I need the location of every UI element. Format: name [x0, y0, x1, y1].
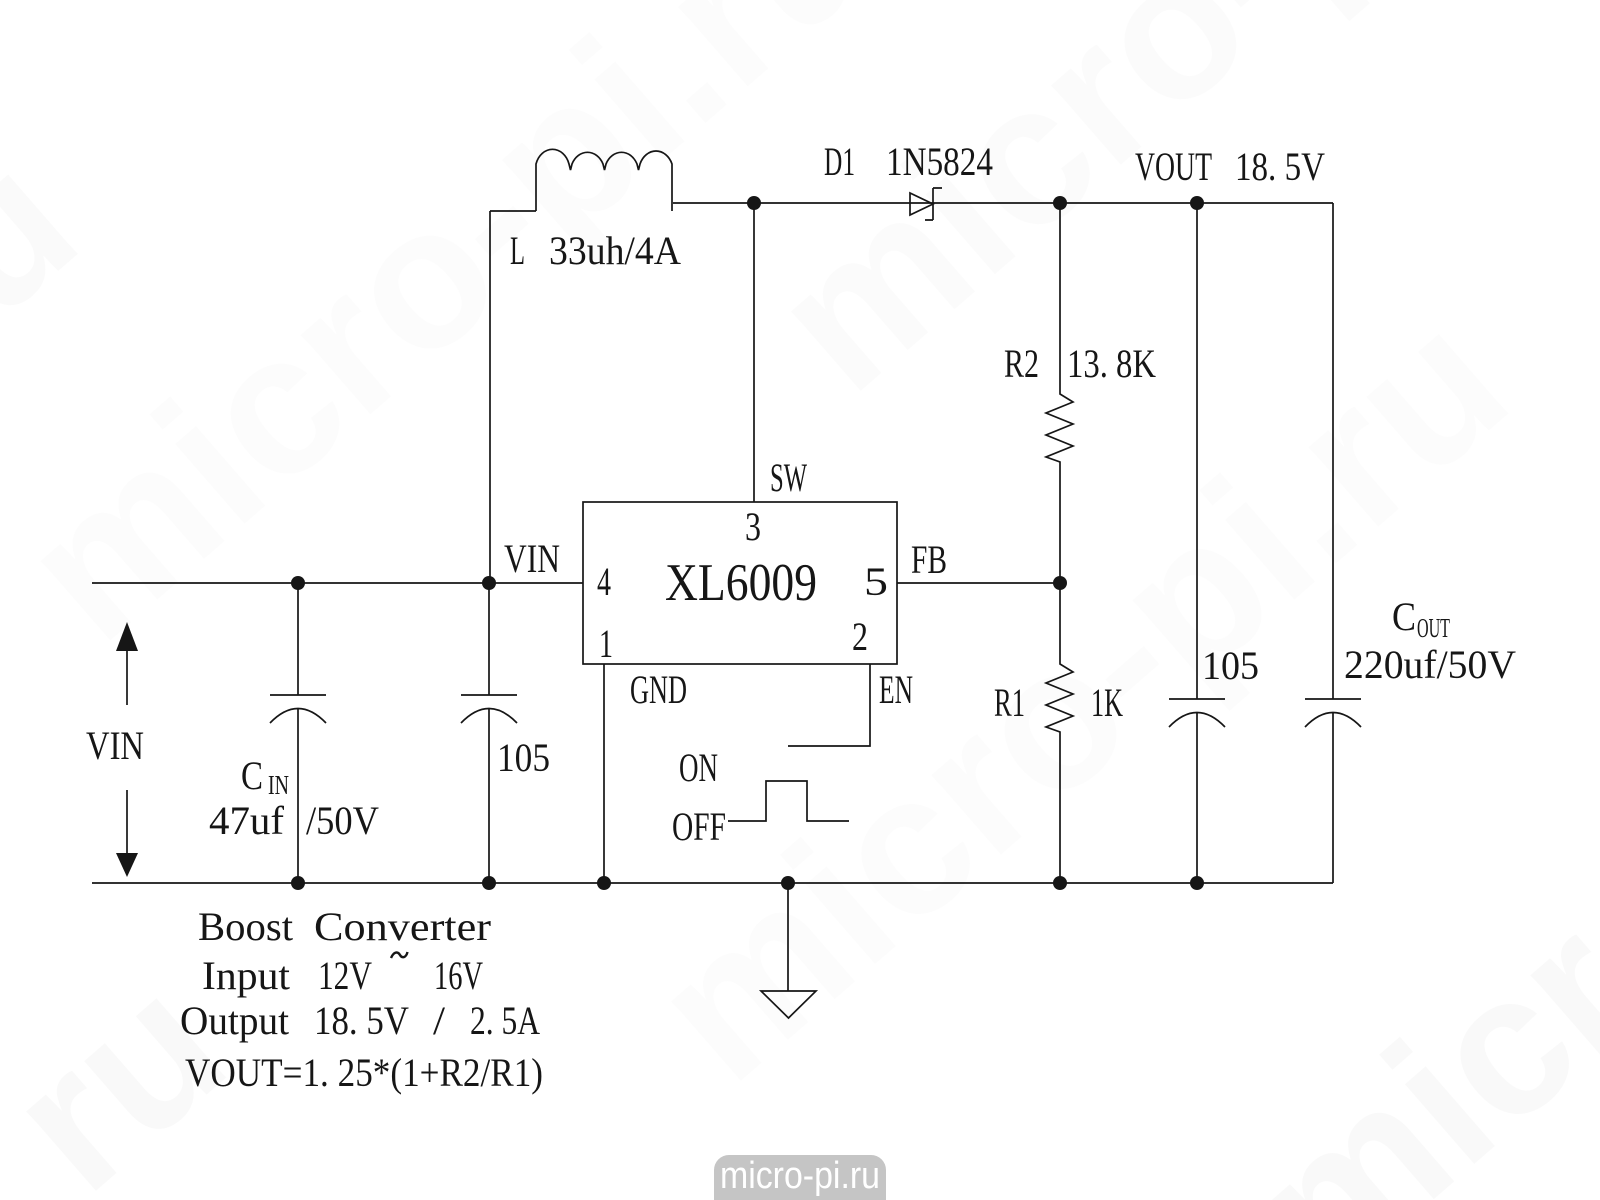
wire GND pin1 — [603, 664, 605, 883]
node junction dot ground symbol on ground rail — [781, 876, 795, 890]
svg-text:5: 5 — [864, 559, 888, 604]
wire inductor left bottom — [490, 210, 536, 212]
svg-text:VIN: VIN — [504, 536, 560, 581]
svg-text:R2: R2 — [1004, 341, 1039, 386]
node junction dot C105 right on ground rail — [1190, 876, 1204, 890]
svg-text:VOUT=1. 25*(1+R2/R1): VOUT=1. 25*(1+R2/R1) — [185, 1050, 543, 1095]
svg-text:OUT: OUT — [1417, 613, 1450, 643]
resistor R1 — [1046, 583, 1073, 883]
VIN measure arrow down shaft — [126, 790, 128, 853]
svg-text:VOUT: VOUT — [1135, 144, 1212, 189]
svg-text:Boost: Boost — [198, 904, 293, 949]
svg-text:47uf: 47uf — [209, 798, 285, 843]
svg-text:GND: GND — [630, 667, 687, 712]
arrowhead down — [116, 853, 138, 877]
capacitor C105 right — [1169, 203, 1225, 883]
svg-text:/: / — [433, 998, 446, 1043]
svg-text:D1: D1 — [824, 139, 855, 184]
node junction dot CIN on VIN rail — [291, 576, 305, 590]
svg-text:16V: 16V — [434, 953, 483, 998]
svg-text:4: 4 — [597, 559, 611, 604]
svg-text:SW: SW — [770, 455, 807, 500]
node junction dot R2 top on VOUT rail — [1053, 196, 1067, 210]
svg-text:3: 3 — [745, 504, 761, 549]
node junction dot C105 left on ground rail — [482, 876, 496, 890]
svg-text:C: C — [1392, 594, 1416, 639]
ground symbol — [761, 883, 816, 1018]
svg-text:Output: Output — [180, 998, 289, 1043]
svg-text:2: 2 — [852, 614, 868, 659]
svg-text:105: 105 — [1202, 643, 1259, 688]
svg-text:/50V: /50V — [306, 798, 379, 843]
svg-text:R1: R1 — [994, 680, 1025, 725]
node junction dot R1 on ground rail — [1053, 876, 1067, 890]
svg-text:Input: Input — [202, 953, 290, 998]
svg-text:220uf/50V: 220uf/50V — [1344, 642, 1516, 687]
svg-text:1K: 1K — [1091, 680, 1123, 725]
watermark badge micro-pi.ru — [714, 1155, 886, 1200]
svg-text:18. 5V: 18. 5V — [1235, 144, 1325, 189]
svg-text:2. 5A: 2. 5A — [470, 998, 540, 1043]
inductor L 33uh/4A — [536, 149, 672, 211]
node junction dot GND pin on ground rail — [597, 876, 611, 890]
node junction dot CIN on ground rail — [291, 876, 305, 890]
svg-text:micro-pi.ru: micro-pi.ru — [720, 1155, 880, 1197]
wire left vertical from inductor to VIN rail — [489, 211, 491, 583]
node FB junction R2/R1 — [1053, 576, 1067, 590]
wire VIN rail — [92, 582, 583, 584]
wire EN pin2 — [788, 664, 870, 746]
resistor R2 — [1046, 203, 1073, 583]
capacitor C105 left — [461, 583, 517, 883]
node junction dot C105 right on VOUT rail — [1190, 196, 1204, 210]
diode D1 — [910, 188, 942, 220]
arrowhead up — [116, 622, 138, 651]
svg-text:1: 1 — [599, 621, 613, 666]
svg-text:C: C — [241, 753, 263, 798]
svg-text:18. 5V: 18. 5V — [314, 998, 409, 1043]
svg-text:33uh/4A: 33uh/4A — [549, 228, 681, 273]
wire top output rail — [673, 202, 1333, 204]
wire SW pin3 — [753, 203, 755, 502]
capacitor COUT — [1305, 203, 1361, 883]
svg-text:OFF: OFF — [672, 804, 726, 849]
svg-text:1N5824: 1N5824 — [886, 139, 993, 184]
node junction dot SW/inductor on VOUT rail — [747, 196, 761, 210]
node junction dot C105 left on VIN rail — [482, 576, 496, 590]
svg-text:ON: ON — [679, 745, 718, 790]
svg-text:12V: 12V — [318, 953, 372, 998]
svg-text:L: L — [510, 228, 525, 273]
svg-text:IN: IN — [268, 770, 289, 800]
wire FB pin5 — [897, 582, 1060, 584]
wire bottom ground rail — [92, 882, 1333, 884]
capacitor CIN — [270, 583, 326, 883]
svg-text:Converter: Converter — [314, 904, 491, 949]
tilde between 12V and 16V — [391, 952, 408, 958]
VIN measure arrow up shaft — [126, 651, 128, 705]
ON/OFF pulse waveform — [728, 781, 849, 821]
svg-text:VIN: VIN — [86, 723, 144, 768]
svg-text:FB: FB — [911, 537, 947, 582]
svg-text:XL6009: XL6009 — [665, 554, 817, 612]
svg-text:EN: EN — [879, 667, 913, 712]
svg-text:13. 8K: 13. 8K — [1067, 341, 1156, 386]
IC U1 XL6009 box — [583, 502, 897, 664]
svg-text:105: 105 — [497, 735, 550, 780]
